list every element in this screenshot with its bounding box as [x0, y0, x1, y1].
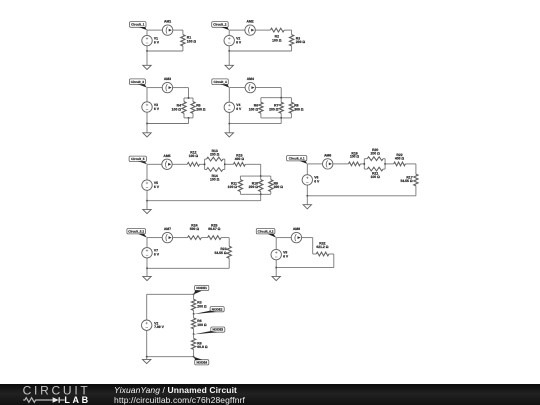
- label R8 60.8 &#937;: [197, 341, 208, 349]
- wire source branch C7: [146, 238, 148, 269]
- svg-text:NODE1: NODE1: [196, 286, 207, 290]
- junction: [228, 50, 230, 52]
- resistor R14: [205, 168, 225, 172]
- label R2 100 &#937;: [272, 34, 282, 42]
- svg-text:300 Ω: 300 Ω: [274, 185, 284, 189]
- ammeter AM5: [162, 154, 172, 170]
- wire node to ammeter C3: [147, 87, 162, 89]
- svg-text:Circuit_1: Circuit_1: [131, 23, 145, 27]
- label R22 400 &#937;: [395, 153, 405, 160]
- resistor R8b: [192, 334, 196, 357]
- svg-text:200 Ω: 200 Ω: [210, 152, 220, 156]
- svg-text:66.67 Ω: 66.67 Ω: [208, 227, 220, 231]
- node flag NODE4: [194, 357, 209, 365]
- svg-text:200 Ω: 200 Ω: [249, 185, 259, 189]
- node flag Circuit_2: [212, 22, 230, 31]
- wire node to ammeter C4: [229, 87, 245, 89]
- pair left bar C5: [204, 159, 206, 169]
- label R12 100 &#937;: [189, 151, 199, 158]
- resistor R19: [333, 162, 364, 166]
- svg-text:6 V: 6 V: [154, 107, 160, 111]
- wire source branch C8: [275, 238, 277, 268]
- label R8 300 &#937;: [294, 104, 304, 112]
- svg-text:100 Ω: 100 Ω: [210, 177, 220, 181]
- wire bottom C2: [229, 50, 291, 52]
- svg-text:200 Ω: 200 Ω: [197, 304, 207, 308]
- trio bottom bar C5: [240, 193, 270, 195]
- parallel bottom bar C3: [184, 117, 193, 119]
- ground: [272, 268, 280, 281]
- ground: [143, 268, 151, 280]
- junction: [146, 356, 148, 358]
- junction: [364, 163, 366, 165]
- svg-text:6 V: 6 V: [236, 107, 242, 111]
- junction: [275, 267, 277, 269]
- svg-text:200 Ω: 200 Ω: [269, 107, 279, 111]
- resistor R1: [181, 30, 185, 51]
- junction: [193, 294, 195, 296]
- junction: [280, 117, 282, 119]
- junction: [280, 97, 282, 99]
- svg-text:Circuit_4: Circuit_4: [213, 80, 227, 84]
- svg-text:AM7: AM7: [164, 227, 171, 231]
- ground: [303, 196, 311, 209]
- node flag Circuit_1: [130, 22, 148, 31]
- label R11 100 &#937;: [228, 181, 238, 189]
- label R10 200 &#937;: [249, 181, 259, 189]
- svg-text:6 V: 6 V: [154, 185, 160, 189]
- wire down to parallel pair C3: [188, 88, 190, 98]
- svg-text:6 V: 6 V: [314, 180, 320, 184]
- wire source branch C5: [146, 164, 148, 200]
- voltage source V7 6 V: [142, 248, 160, 258]
- svg-text:60.8 Ω: 60.8 Ω: [197, 345, 208, 349]
- wire node to ammeter C2: [229, 29, 245, 31]
- voltage source V8 6 V: [271, 249, 289, 259]
- svg-text:NODE3: NODE3: [212, 328, 223, 332]
- node flag NODE2: [194, 307, 225, 315]
- label R5 200 &#937;: [196, 104, 206, 112]
- resistor R32: [313, 252, 334, 256]
- svg-text:AM1: AM1: [164, 20, 171, 24]
- wire ammeter to corner C1: [173, 29, 183, 31]
- wire bottom C7: [147, 267, 229, 269]
- node flag NODE3: [194, 327, 225, 334]
- wire source branch C2: [228, 30, 230, 51]
- resistor R7: [279, 98, 283, 118]
- node flag Circuit_6.1: [287, 156, 308, 164]
- wire trio to bottom C4: [280, 118, 282, 124]
- label R1 100 &#937;: [187, 36, 197, 44]
- node flag Circuit_4: [212, 79, 230, 88]
- junction: [146, 200, 148, 202]
- svg-text:AM5: AM5: [163, 154, 170, 158]
- svg-text:7.89 V: 7.89 V: [154, 325, 165, 329]
- label R32 621.2 &#937;: [316, 242, 328, 249]
- svg-text:200 Ω: 200 Ω: [196, 107, 206, 111]
- svg-text:Circuit_3: Circuit_3: [131, 80, 145, 84]
- svg-text:NODE2: NODE2: [212, 307, 223, 311]
- voltage source V6 6 V: [302, 175, 320, 185]
- svg-text:6 V: 6 V: [236, 40, 242, 44]
- resistor R20: [364, 157, 385, 161]
- wire trio to bottom C5: [260, 194, 262, 200]
- wire source branch C6: [306, 164, 308, 196]
- trio bottom bar C4: [261, 117, 292, 119]
- svg-text:400 Ω: 400 Ω: [235, 157, 245, 161]
- svg-text:AM8: AM8: [293, 227, 300, 231]
- wire node to ammeter C5: [147, 163, 162, 165]
- label R24 500 &#937;: [190, 224, 200, 231]
- svg-text:54.55 Ω: 54.55 Ω: [214, 251, 226, 255]
- wire ammeter to corner C3: [173, 87, 189, 89]
- svg-text:Circuit_2: Circuit_2: [213, 23, 227, 27]
- resistor R8: [289, 98, 293, 118]
- resistor R22: [385, 162, 416, 166]
- wire ammeter to corner C4: [256, 87, 282, 89]
- svg-text:100 Ω: 100 Ω: [272, 38, 282, 42]
- svg-text:200 Ω: 200 Ω: [371, 152, 381, 156]
- wire source branch C1: [146, 30, 148, 51]
- ammeter AM1: [162, 20, 172, 36]
- svg-text:100 Ω: 100 Ω: [172, 107, 182, 111]
- svg-text:100 Ω: 100 Ω: [189, 154, 199, 158]
- label R25 66.67 &#937;: [208, 224, 220, 231]
- svg-text:100 Ω: 100 Ω: [197, 323, 207, 327]
- svg-text:6 V: 6 V: [154, 253, 160, 257]
- resistor R6: [259, 98, 263, 118]
- node flag NODE1: [194, 285, 209, 294]
- wire ammeter to corner C8: [302, 237, 313, 239]
- resistor R21: [364, 167, 385, 171]
- junction: [384, 163, 386, 165]
- svg-text:6 V: 6 V: [283, 254, 289, 258]
- svg-text:AM6: AM6: [324, 154, 331, 158]
- trio top bar C4: [261, 97, 292, 99]
- ground: [225, 51, 233, 70]
- label R20 200 &#937;: [371, 148, 381, 155]
- ammeter AM7: [162, 227, 172, 243]
- wire R32 to bottom: [333, 254, 335, 268]
- svg-text:Circuit_6.1: Circuit_6.1: [289, 156, 305, 160]
- ammeter AM2: [245, 20, 255, 36]
- junction: [193, 313, 195, 315]
- wire down to trio C5: [260, 164, 262, 176]
- wire source branch C4: [228, 88, 230, 124]
- resistor R17: [414, 164, 418, 196]
- label R21 100 &#937;: [371, 172, 381, 179]
- resistor R3: [290, 30, 294, 51]
- svg-text:400 Ω: 400 Ω: [395, 156, 405, 160]
- svg-text:Circuit_5: Circuit_5: [131, 157, 145, 161]
- ground: [143, 201, 151, 214]
- wire bottom C1: [147, 50, 183, 52]
- junction: [260, 175, 262, 177]
- svg-text:AM3: AM3: [164, 77, 171, 81]
- svg-text:100 Ω: 100 Ω: [350, 155, 360, 159]
- wire pair to bottom C3: [188, 118, 190, 124]
- label R17 54.55 &#937;: [400, 176, 412, 184]
- wire node to ammeter C6: [307, 163, 322, 165]
- parallel top bar C3: [184, 97, 193, 99]
- svg-text:100 Ω: 100 Ω: [187, 39, 197, 43]
- label R6 100 &#937;: [249, 104, 259, 112]
- ground: [143, 51, 151, 70]
- pair right bar C5: [224, 159, 226, 169]
- wire source branch C9: [146, 294, 148, 356]
- voltage source V1 6 V: [142, 35, 160, 45]
- junction: [193, 356, 195, 358]
- resistor R15: [225, 162, 261, 166]
- wire bottom C5: [147, 200, 261, 202]
- label R3 200 &#937;: [197, 301, 207, 309]
- label R7 200 &#937;: [269, 104, 279, 112]
- wire bottom C4: [229, 123, 281, 125]
- resistor R11: [238, 176, 242, 194]
- svg-text:200 Ω: 200 Ω: [296, 40, 306, 44]
- label R13 200 &#937;: [210, 149, 220, 156]
- junction: [146, 123, 148, 125]
- resistor R4: [182, 98, 186, 118]
- svg-text:6 V: 6 V: [154, 40, 160, 44]
- svg-text:AM2: AM2: [247, 20, 254, 24]
- ammeter AM8: [291, 227, 301, 243]
- resistor R5: [191, 98, 195, 118]
- svg-text:100 Ω: 100 Ω: [249, 107, 259, 111]
- pair right bar C6: [384, 159, 386, 169]
- junction: [146, 50, 148, 52]
- label R6 100 &#937;: [197, 319, 207, 327]
- label R15 400 &#937;: [235, 153, 245, 160]
- wire bottom C6: [307, 195, 416, 197]
- svg-text:54.55 Ω: 54.55 Ω: [400, 179, 412, 183]
- wire bottom C9: [147, 356, 194, 358]
- wire node to ammeter C8: [276, 237, 291, 239]
- voltage source V2 7.89 V: [142, 320, 165, 330]
- wire top C9: [147, 293, 194, 295]
- junction: [260, 194, 262, 196]
- label R9 300 &#937;: [274, 181, 284, 189]
- svg-text:NODE4: NODE4: [196, 360, 207, 364]
- voltage source V2 6 V: [224, 35, 242, 45]
- junction: [307, 195, 309, 197]
- resistor R3b: [192, 294, 196, 314]
- voltage source V3 6 V: [142, 102, 160, 112]
- resistor R13: [205, 157, 225, 161]
- voltage source V4 6 V: [224, 102, 242, 112]
- junction: [224, 164, 226, 166]
- svg-text:500 Ω: 500 Ω: [190, 227, 200, 231]
- junction: [193, 333, 195, 335]
- wire node to ammeter C1: [147, 29, 162, 31]
- trio top bar C5: [240, 175, 270, 177]
- logo diode symbol: [53, 397, 59, 403]
- junction: [188, 117, 190, 119]
- label R4 100 &#937;: [172, 104, 182, 112]
- label R19 100 &#937;: [350, 151, 360, 158]
- svg-text:621.2 Ω: 621.2 Ω: [316, 245, 328, 249]
- resistor R2: [255, 28, 291, 32]
- svg-text:100 Ω: 100 Ω: [228, 185, 238, 189]
- ammeter AM4: [245, 77, 255, 93]
- node flag Circuit_3: [129, 79, 147, 88]
- svg-text:100 Ω: 100 Ω: [371, 175, 381, 179]
- wire bottom C3: [147, 123, 189, 125]
- label R14 100 &#937;: [210, 174, 220, 181]
- svg-text:LAB: LAB: [64, 395, 90, 405]
- resistor R12: [172, 162, 204, 166]
- ammeter AM3: [162, 77, 172, 93]
- svg-text:Circuit_5.2: Circuit_5.2: [128, 229, 144, 233]
- ground: [143, 124, 151, 138]
- node flag Circuit_5.2: [127, 229, 147, 238]
- resistor R23: [227, 238, 231, 269]
- node flag Circuit_5: [129, 156, 147, 164]
- resistor R6b: [192, 314, 196, 334]
- ground: [143, 357, 151, 364]
- voltage source V5 6 V: [142, 180, 160, 190]
- ammeter AM6: [323, 154, 333, 170]
- wire node to ammeter C7: [147, 237, 162, 239]
- resistor R24: [173, 236, 205, 240]
- wire down to R32: [312, 238, 314, 254]
- resistor R10: [259, 176, 263, 194]
- svg-text:AM4: AM4: [247, 77, 254, 81]
- pair left bar C6: [363, 159, 365, 169]
- junction: [146, 268, 148, 270]
- label R23 54.55 &#937;: [214, 247, 226, 255]
- node flag Circuit_6.2: [256, 229, 276, 238]
- junction: [188, 97, 190, 99]
- logo resistor symbol: [23, 398, 52, 403]
- svg-text:300 Ω: 300 Ω: [294, 107, 304, 111]
- resistor R25: [205, 236, 230, 240]
- wire bottom C8: [276, 267, 334, 269]
- junction: [204, 164, 206, 166]
- svg-text:Circuit_6.2: Circuit_6.2: [258, 229, 274, 233]
- junction: [229, 123, 231, 125]
- resistor R9: [269, 176, 273, 194]
- label R3 200 &#937;: [296, 36, 306, 44]
- wire down to parallel trio C4: [280, 88, 282, 98]
- wire source branch C3: [146, 88, 148, 124]
- ground: [225, 124, 233, 137]
